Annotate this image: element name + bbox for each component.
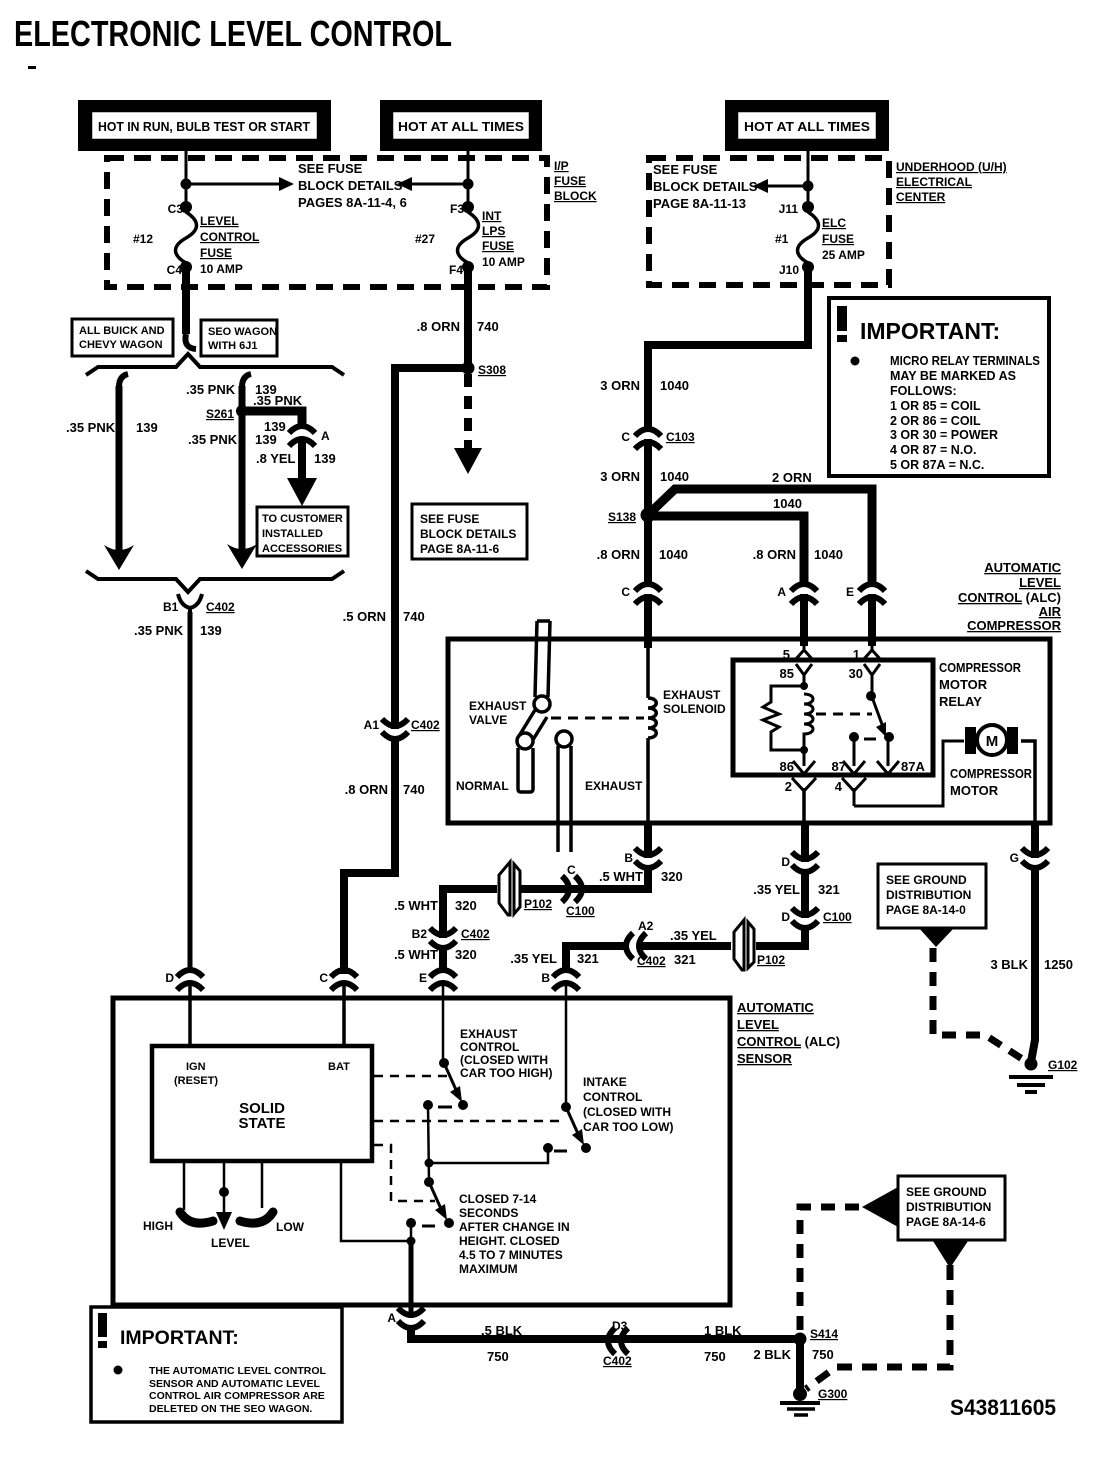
node S261 xyxy=(236,405,248,417)
svg-text:.35 PNK: .35 PNK xyxy=(186,382,236,397)
svg-text:C3: C3 xyxy=(168,202,184,216)
timer switch contacts xyxy=(406,1218,454,1228)
svg-text:3 ORN: 3 ORN xyxy=(600,469,640,484)
dashed link valve to solenoid xyxy=(551,717,644,720)
wire solid state LEVEL pointer xyxy=(216,1161,232,1230)
wire A out of sensor box xyxy=(409,1300,414,1318)
connector D3 C402 xyxy=(608,1328,628,1354)
svg-text:321: 321 xyxy=(818,882,840,897)
svg-text:F4: F4 xyxy=(449,263,463,277)
svg-text:740: 740 xyxy=(477,319,499,334)
svg-text:C402: C402 xyxy=(206,600,235,614)
svg-text:87A: 87A xyxy=(901,759,925,774)
svg-text:10 AMP: 10 AMP xyxy=(482,255,525,269)
svg-text:FUSE: FUSE xyxy=(554,174,586,188)
sensor box xyxy=(113,998,730,1305)
wire from C4 fuse output down (thick) with hook end xyxy=(185,266,196,349)
svg-text:.8 YEL: .8 YEL xyxy=(256,451,296,466)
exhaust switch contacts xyxy=(423,1100,468,1110)
dashed control line to intake switch xyxy=(374,1120,562,1123)
svg-text:COMPRESSOR: COMPRESSOR xyxy=(939,660,1022,675)
wire timer output down to A xyxy=(409,1241,414,1305)
label COMPRESSOR MOTOR xyxy=(950,766,1033,798)
svg-text:AFTER CHANGE IN: AFTER CHANGE IN xyxy=(459,1220,570,1234)
connector B2 C402 xyxy=(430,928,456,948)
wire S414 down to G300 xyxy=(796,1339,804,1391)
svg-text:A1: A1 xyxy=(364,718,380,732)
svg-text:TO CUSTOMER: TO CUSTOMER xyxy=(262,513,343,525)
svg-text:1040: 1040 xyxy=(659,547,688,562)
dashed wire from S308 down xyxy=(464,374,472,448)
arrow from I/P hot wire (left pointing) xyxy=(397,177,468,191)
svg-text:BLOCK: BLOCK xyxy=(554,189,597,203)
svg-text:IMPORTANT:: IMPORTANT: xyxy=(120,1327,239,1349)
pin 2 fork xyxy=(792,778,816,823)
intake switch contacts xyxy=(543,1143,591,1153)
svg-text:IMPORTANT:: IMPORTANT: xyxy=(860,318,1000,344)
svg-text:UNDERHOOD (U/H): UNDERHOOD (U/H) xyxy=(896,160,1007,174)
svg-text:.35 YEL: .35 YEL xyxy=(670,928,717,943)
svg-text:INSTALLED: INSTALLED xyxy=(262,528,323,540)
box SEE FUSE BLOCK DETAILS PAGE 8A-11-6 xyxy=(412,504,527,559)
label 3 ORN 1040 (below C103) xyxy=(600,469,689,484)
relay contact 87 xyxy=(849,732,859,742)
svg-text:10 AMP: 10 AMP xyxy=(200,262,243,276)
svg-text:D: D xyxy=(781,910,790,924)
svg-text:IGN: IGN xyxy=(186,1061,206,1073)
fuse LEVEL CONTROL FUSE #12 xyxy=(176,201,197,273)
label .8 ORN 740 xyxy=(345,782,425,797)
svg-text:C: C xyxy=(621,585,630,599)
svg-text:S138: S138 xyxy=(608,510,636,524)
svg-text:FOLLOWS:: FOLLOWS: xyxy=(890,384,957,398)
intake control switch blade xyxy=(566,1107,584,1145)
svg-text:C402: C402 xyxy=(411,718,440,732)
svg-text:INT: INT xyxy=(482,209,502,223)
compressor motor M xyxy=(965,725,1018,755)
connector A2 C402 xyxy=(626,933,646,959)
wire C103 to S138 xyxy=(644,439,652,587)
svg-text:INTAKE: INTAKE xyxy=(583,1075,627,1089)
wire B down and left along y=889 xyxy=(519,865,648,889)
exhaust solenoid coil xyxy=(648,642,656,738)
label .35 PNK 139 (above S261) xyxy=(186,382,277,397)
label COMPRESSOR MOTOR RELAY xyxy=(939,660,1022,709)
pin 30 fork xyxy=(864,664,880,695)
connector C (compressor) xyxy=(635,584,661,604)
svg-text:5 OR 87A = N.C.: 5 OR 87A = N.C. xyxy=(890,458,984,472)
svg-text:CONTROL AIR COMPRESSOR ARE: CONTROL AIR COMPRESSOR ARE xyxy=(149,1390,325,1402)
svg-text:87: 87 xyxy=(832,759,846,774)
svg-text:SENSOR AND AUTOMATIC LEVEL: SENSOR AND AUTOMATIC LEVEL xyxy=(149,1378,321,1390)
label .35 PNK 139 (left branch) xyxy=(66,420,158,435)
connector D (compressor) xyxy=(792,852,818,872)
label 2 BLK / 750 xyxy=(753,1347,833,1362)
svg-text:(CLOSED WITH: (CLOSED WITH xyxy=(583,1105,671,1119)
arrow head down to see fuse box xyxy=(454,448,482,474)
svg-text:.35 PNK: .35 PNK xyxy=(66,420,116,435)
ground G102 xyxy=(1009,1058,1053,1093)
relay coil winding xyxy=(804,694,813,748)
label .5 ORN 740 xyxy=(343,609,425,624)
svg-text:HIGH: HIGH xyxy=(143,1219,173,1233)
connector A (inline) xyxy=(289,426,315,446)
connector E (sensor) xyxy=(430,970,456,990)
svg-text:RELAY: RELAY xyxy=(939,694,982,709)
svg-text:E: E xyxy=(846,585,854,599)
svg-text:4: 4 xyxy=(835,779,843,794)
dashed wire from triangle down then left to S414 xyxy=(806,1265,950,1389)
svg-text:750: 750 xyxy=(704,1349,726,1364)
svg-text:MAXIMUM: MAXIMUM xyxy=(459,1262,518,1276)
top brace xyxy=(86,354,344,375)
svg-text:139: 139 xyxy=(314,451,336,466)
relay coil node top xyxy=(800,682,808,690)
svg-text:3 BLK: 3 BLK xyxy=(990,957,1028,972)
svg-text:1040: 1040 xyxy=(660,469,689,484)
svg-text:2 BLK: 2 BLK xyxy=(753,1347,791,1362)
arrow left to see fuse (U/H) xyxy=(753,179,808,193)
wire D down to C100 xyxy=(801,869,809,918)
svg-text:B2: B2 xyxy=(412,927,428,941)
wire solid state to HIGH arc xyxy=(183,1161,186,1210)
svg-text:C402: C402 xyxy=(637,954,666,968)
svg-text:.35 PNK: .35 PNK xyxy=(253,393,303,408)
wire B to intake switch xyxy=(565,984,568,1107)
label .8 ORN 740 xyxy=(417,319,499,334)
svg-text:SEE FUSE: SEE FUSE xyxy=(298,161,363,176)
dashed wire ground box to G102 xyxy=(933,948,1027,1062)
timer switch blade xyxy=(429,1182,447,1220)
svg-text:SEE FUSE: SEE FUSE xyxy=(420,512,479,526)
svg-text:#1: #1 xyxy=(775,232,789,246)
svg-text:PAGE 8A-11-6: PAGE 8A-11-6 xyxy=(420,542,499,556)
svg-text:.5 ORN: .5 ORN xyxy=(343,609,386,624)
wire from HOT IN RUN down to fuse xyxy=(185,149,188,209)
relay switch blade with arrow xyxy=(872,697,886,737)
svg-text:COMPRESSOR: COMPRESSOR xyxy=(950,766,1033,781)
label EXHAUST SOLENOID xyxy=(663,688,726,716)
wire below A1 connector, jog left, down to C xyxy=(344,736,395,974)
svg-text:A: A xyxy=(777,585,786,599)
node S138 xyxy=(641,508,656,523)
fuse ELC FUSE #1 xyxy=(798,201,819,273)
wire A connector down xyxy=(298,437,306,480)
svg-text:4.5 TO 7 MINUTES: 4.5 TO 7 MINUTES xyxy=(459,1248,563,1262)
label INT LPS FUSE 10 AMP xyxy=(482,209,525,269)
svg-text:.8 ORN: .8 ORN xyxy=(753,547,796,562)
connector C103 (inline) xyxy=(635,429,661,449)
svg-text:S414: S414 xyxy=(810,1327,838,1341)
node S414 xyxy=(794,1333,807,1346)
svg-text:AIR: AIR xyxy=(1039,604,1062,619)
svg-text:A2: A2 xyxy=(638,919,654,933)
junction dot xyxy=(803,181,814,192)
svg-text:ALL BUICK AND: ALL BUICK AND xyxy=(79,325,165,337)
connector B (compressor) xyxy=(635,848,661,868)
wire C402 down to sensor (long) xyxy=(188,612,193,973)
svg-text:#12: #12 xyxy=(133,232,153,246)
wire P102 left to A2 xyxy=(640,942,731,950)
relay contact 87A xyxy=(884,732,894,742)
svg-text:ELECTRICAL: ELECTRICAL xyxy=(896,175,972,189)
power box HOT AT ALL TIMES (U/H) xyxy=(725,100,889,151)
svg-text:J10: J10 xyxy=(779,263,799,277)
label INTAKE CONTROL (CLOSED WITH CAR TOO LOW) xyxy=(583,1075,673,1134)
svg-text:FUSE: FUSE xyxy=(822,232,854,246)
svg-text:NORMAL: NORMAL xyxy=(456,779,509,793)
solid state box xyxy=(152,1046,372,1161)
box ALL BUICK AND CHEVY WAGON xyxy=(72,319,173,356)
I/P fuse block dashed box xyxy=(107,158,547,287)
svg-text:B: B xyxy=(541,971,550,985)
svg-text:HEIGHT. CLOSED: HEIGHT. CLOSED xyxy=(459,1234,560,1248)
svg-text:750: 750 xyxy=(812,1347,834,1362)
wire E to exhaust switch xyxy=(442,984,445,1063)
wire motor to right then down xyxy=(1021,741,1035,823)
wire C100 down then left to P102 xyxy=(756,925,805,946)
intake control switch pivot xyxy=(561,1102,571,1112)
wire intake contact to junction xyxy=(429,1148,548,1163)
node S308 xyxy=(462,362,475,375)
pin 4 fork xyxy=(842,778,866,806)
svg-text:AUTOMATIC: AUTOMATIC xyxy=(737,1000,814,1015)
relay resistor (parallel) xyxy=(763,686,804,750)
wire A to pin 5 xyxy=(800,594,808,646)
label EXHAUST VALVE xyxy=(469,699,527,727)
svg-text:139: 139 xyxy=(136,420,158,435)
svg-text:EXHAUST: EXHAUST xyxy=(469,699,527,713)
svg-text:C100: C100 xyxy=(566,904,595,918)
junction dot at timer output xyxy=(407,1237,416,1246)
wire A2 left then down to B xyxy=(566,946,624,973)
svg-text:1250: 1250 xyxy=(1044,957,1073,972)
connector A (sensor) xyxy=(398,1308,424,1328)
svg-text:85: 85 xyxy=(780,666,794,681)
contact gap dash xyxy=(864,738,876,741)
svg-text:P102: P102 xyxy=(524,897,552,911)
pin 5 fork xyxy=(795,641,813,660)
connector C (sensor) xyxy=(331,970,357,990)
label .35 PNK 139 (below S261) xyxy=(188,432,277,447)
svg-text:.5 WHT: .5 WHT xyxy=(394,898,438,913)
svg-text:CONTROL: CONTROL xyxy=(200,230,259,244)
svg-text:2 ORN: 2 ORN xyxy=(772,470,812,485)
svg-text:HOT AT ALL TIMES: HOT AT ALL TIMES xyxy=(744,119,870,134)
svg-text:LEVEL: LEVEL xyxy=(211,1236,250,1250)
svg-text:E: E xyxy=(419,971,427,985)
label .5 BLK / 750 xyxy=(481,1323,523,1364)
svg-text:ELC: ELC xyxy=(822,216,846,230)
svg-text:CLOSED 7-14: CLOSED 7-14 xyxy=(459,1192,537,1206)
wire D into solid state xyxy=(188,984,192,1048)
triangle arrow (left-pointing) at ground box xyxy=(862,1187,898,1227)
svg-text:C: C xyxy=(621,430,630,444)
svg-text:J11: J11 xyxy=(779,202,799,216)
wire A down then right to S414 xyxy=(411,1325,800,1339)
svg-text:MOTOR: MOTOR xyxy=(950,783,999,798)
dashed control line to exhaust switch xyxy=(374,1075,450,1078)
relay box COMPRESSOR MOTOR RELAY xyxy=(733,660,933,775)
svg-text:G: G xyxy=(1010,851,1019,865)
svg-text:EXHAUST: EXHAUST xyxy=(460,1027,518,1041)
connector B (sensor) xyxy=(553,970,579,990)
exhaust valve plunger upper cylinder xyxy=(534,621,550,712)
wire solenoid B out of box xyxy=(644,823,652,858)
connector fork B1 C402 xyxy=(178,594,202,614)
svg-text:.35 PNK: .35 PNK xyxy=(188,432,238,447)
svg-text:.5 BLK: .5 BLK xyxy=(481,1323,523,1338)
svg-text:(CLOSED WITH: (CLOSED WITH xyxy=(460,1053,548,1067)
wire motor G down out of box xyxy=(1031,823,1039,858)
svg-text:740: 740 xyxy=(403,782,425,797)
svg-text:ELECTRONIC LEVEL CONTROL: ELECTRONIC LEVEL CONTROL xyxy=(14,13,452,54)
label IGN (RESET) xyxy=(174,1061,218,1087)
svg-text:CONTROL (ALC): CONTROL (ALC) xyxy=(737,1034,840,1049)
wire exhaust contact down xyxy=(428,1105,429,1182)
svg-text:.5 WHT: .5 WHT xyxy=(599,869,643,884)
svg-text:BLOCK DETAILS: BLOCK DETAILS xyxy=(298,178,403,193)
svg-text:321: 321 xyxy=(674,952,696,967)
label .8 ORN 1040 (A branch) xyxy=(753,547,843,562)
svg-text:750: 750 xyxy=(487,1349,509,1364)
connector C100 on horizontal wire xyxy=(562,876,582,902)
timer switch pivot xyxy=(424,1177,434,1187)
wire S261 to A connector xyxy=(242,411,302,429)
label AUTOMATIC LEVEL CONTROL (ALC) AIR COMPRESSOR xyxy=(958,560,1062,633)
svg-text:C103: C103 xyxy=(666,430,695,444)
svg-text:EXHAUST: EXHAUST xyxy=(585,779,643,793)
svg-text:I/P: I/P xyxy=(554,159,569,173)
label SOLID STATE xyxy=(239,1100,286,1132)
underhood electrical center dashed box xyxy=(649,158,889,285)
connector A1 C402 (inline) xyxy=(382,719,408,739)
svg-text:3 OR 30 = POWER: 3 OR 30 = POWER xyxy=(890,428,998,442)
wire from U/H HOT box down xyxy=(807,149,810,209)
svg-text:320: 320 xyxy=(455,898,477,913)
svg-text:MAY BE MARKED AS: MAY BE MARKED AS xyxy=(890,369,1016,383)
svg-text:CONTROL (ALC): CONTROL (ALC) xyxy=(958,590,1061,605)
pin 1 fork xyxy=(863,641,881,660)
svg-text:.8 ORN: .8 ORN xyxy=(597,547,640,562)
svg-text:FUSE: FUSE xyxy=(200,246,232,260)
svg-text:HOT IN RUN, BULB TEST OR START: HOT IN RUN, BULB TEST OR START xyxy=(98,119,310,134)
label .35 YEL 321 (at B sensor) xyxy=(510,951,598,966)
svg-text:C4: C4 xyxy=(167,263,183,277)
label CLOSED 7-14 SECONDS ... xyxy=(459,1192,570,1276)
label 1 BLK / 750 xyxy=(704,1323,742,1364)
svg-text:SENSOR: SENSOR xyxy=(737,1051,793,1066)
svg-text:D: D xyxy=(165,971,174,985)
label ELC FUSE 25 AMP xyxy=(822,216,865,262)
svg-text:1: 1 xyxy=(853,647,860,662)
svg-text:S43811605: S43811605 xyxy=(950,1395,1056,1420)
svg-text:LEVEL: LEVEL xyxy=(737,1017,779,1032)
svg-text:86: 86 xyxy=(780,759,794,774)
svg-text:G300: G300 xyxy=(818,1387,848,1401)
svg-text:321: 321 xyxy=(577,951,599,966)
svg-text:1040: 1040 xyxy=(773,496,802,511)
text SEE FUSE BLOCK DETAILS PAGES 8A-11-4, 6 xyxy=(298,161,407,210)
wire from HOT AT ALL TIMES down xyxy=(467,149,470,209)
label 3 BLK 1250 xyxy=(990,957,1072,972)
svg-text:1040: 1040 xyxy=(660,378,689,393)
label .8 YEL 139 xyxy=(256,451,336,466)
svg-text:30: 30 xyxy=(849,666,863,681)
svg-text:PAGE 8A-11-13: PAGE 8A-11-13 xyxy=(653,196,746,211)
wire J10 down, left, down to C103 xyxy=(648,266,808,432)
connector P102 (second) xyxy=(734,920,754,970)
svg-text:C: C xyxy=(567,863,576,877)
label AUTOMATIC LEVEL CONTROL (ALC) SENSOR xyxy=(737,1000,840,1066)
svg-text:.35 YEL: .35 YEL xyxy=(510,951,557,966)
box SEO WAGON WITH 6J1 xyxy=(201,320,277,356)
connector A (compressor) xyxy=(791,584,817,604)
svg-text:DELETED ON THE SEO WAGON.: DELETED ON THE SEO WAGON. xyxy=(149,1403,312,1415)
svg-text:740: 740 xyxy=(403,609,425,624)
svg-text:HOT AT ALL TIMES: HOT AT ALL TIMES xyxy=(398,119,524,134)
exhaust position cylinder xyxy=(556,731,572,852)
svg-text:1 BLK: 1 BLK xyxy=(704,1323,742,1338)
wire C into solid state xyxy=(342,984,346,1048)
svg-text:PAGES 8A-11-4, 6: PAGES 8A-11-4, 6 xyxy=(298,195,407,210)
svg-text:25 AMP: 25 AMP xyxy=(822,248,865,262)
wire B2 to E connector xyxy=(439,945,447,973)
label .5 WHT 320 (below B2) xyxy=(394,947,477,962)
svg-text:BLOCK DETAILS: BLOCK DETAILS xyxy=(653,179,758,194)
label .5 WHT 320 (above B2) xyxy=(394,898,477,913)
svg-text:.8 ORN: .8 ORN xyxy=(345,782,388,797)
svg-text:BAT: BAT xyxy=(328,1061,350,1073)
svg-text:320: 320 xyxy=(661,869,683,884)
svg-text:WITH 6J1: WITH 6J1 xyxy=(208,340,258,352)
svg-text:.8 ORN: .8 ORN xyxy=(417,319,460,334)
svg-text:C: C xyxy=(319,971,328,985)
svg-text:VALVE: VALVE xyxy=(469,713,507,727)
arrow to customer accessories xyxy=(287,478,317,506)
svg-text:139: 139 xyxy=(200,623,222,638)
wire left branch with start hook xyxy=(104,374,134,570)
label .35 PNK 139 (below C402) xyxy=(134,623,222,638)
svg-text:STATE: STATE xyxy=(239,1115,286,1132)
svg-text:139: 139 xyxy=(255,432,277,447)
fuse INT LPS FUSE #27 xyxy=(458,201,479,273)
power box HOT IN RUN xyxy=(78,100,331,151)
svg-text:CAR TOO LOW): CAR TOO LOW) xyxy=(583,1120,673,1134)
svg-text:.35 PNK: .35 PNK xyxy=(134,623,184,638)
svg-text:B: B xyxy=(624,851,633,865)
svg-text:DISTRIBUTION: DISTRIBUTION xyxy=(906,1200,991,1214)
svg-text:4 OR 87 = N.O.: 4 OR 87 = N.O. xyxy=(890,443,977,457)
svg-text:2: 2 xyxy=(785,779,792,794)
triangle below ground box xyxy=(919,928,954,947)
wire E to pin 1 xyxy=(868,594,876,646)
wire P102 left then corner down xyxy=(443,889,497,938)
svg-text:MOTOR: MOTOR xyxy=(939,677,988,692)
triangle below ground box (down-pointing) xyxy=(933,1241,968,1268)
svg-text:2 OR 86 = COIL: 2 OR 86 = COIL xyxy=(890,414,981,428)
pin 85 fork xyxy=(796,664,812,685)
svg-text:G102: G102 xyxy=(1048,1058,1078,1072)
svg-text:CONTROL: CONTROL xyxy=(583,1090,642,1104)
box TO CUSTOMER INSTALLED ACCESSORIES xyxy=(257,507,348,556)
svg-text:CENTER: CENTER xyxy=(896,190,946,204)
svg-text:.35 YEL: .35 YEL xyxy=(753,882,800,897)
svg-text:D: D xyxy=(781,855,790,869)
svg-text:FUSE: FUSE xyxy=(482,239,514,253)
connector D (sensor) xyxy=(177,970,203,990)
wire from solid state to timer contact xyxy=(341,1161,411,1241)
